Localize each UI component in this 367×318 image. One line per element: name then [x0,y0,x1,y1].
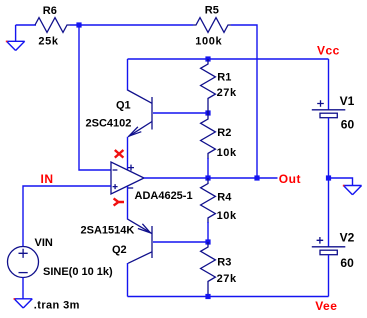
wire: Q2 base to divider [153,241,208,243]
resistor R1 [201,59,216,113]
svg-text:25k: 25k [38,36,58,48]
wire: Q1 base to divider [153,112,208,114]
svg-text:SINE(0 10 1k): SINE(0 10 1k) [43,266,113,278]
wire: gnd to R6 [16,24,36,26]
wire: VIN to ground [22,278,24,299]
battery V1 [312,100,346,118]
svg-text:Q1: Q1 [116,100,131,112]
wire: Q2 collector down to Vee rail [127,263,129,297]
node A junction (79,25) [76,22,81,27]
red dot artifact at VIN ground [14,298,16,300]
wire: Vee rail [128,296,329,298]
resistor R3 [201,242,216,297]
svg-text:V2: V2 [340,231,355,245]
marker X (inverting input) [115,150,124,158]
svg-text:R3: R3 [217,257,231,269]
svg-text:10k: 10k [217,147,237,159]
wire: V1 to mid node [328,118,330,178]
svg-text:Vcc: Vcc [317,44,340,58]
wire: Vcc rail down to V1 [328,59,330,110]
node: V1/V2/ground junction [326,175,331,180]
node: output/R5 junction [254,175,259,180]
svg-text:2SA1514K: 2SA1514K [81,225,135,237]
svg-text:IN: IN [41,172,54,186]
ground (below VIN) [14,299,32,308]
node: R4/R3/base junction [205,239,210,244]
node: R1/R2/base junction [205,110,210,115]
wire: op-amp V- down to Q2 emitter [127,186,129,219]
svg-text:.tran 3m: .tran 3m [34,300,80,312]
transistor Q2 (PNP 2SA1514K, mirrored) [128,219,153,263]
red dot artifact at top-left ground [6,41,8,43]
voltage source VIN [8,247,39,278]
wire: R2 bottom to output row [207,158,209,178]
wire: mid node to right ground [329,178,353,186]
resistor R4 [201,178,216,223]
svg-text:Q2: Q2 [112,244,127,256]
marker Y (non-inverting input) [114,198,124,205]
svg-text:V1: V1 [340,94,355,108]
ground (top-left, at R6) [7,25,25,51]
resistor R2 [201,113,216,159]
svg-text:R1: R1 [217,72,231,84]
svg-text:ADA4625-1: ADA4625-1 [135,190,193,202]
red dot artifact at right ground [343,185,345,187]
svg-text:27k: 27k [217,87,237,99]
svg-text:10k: 10k [217,210,237,222]
wire: node A down to op-amp inverting input [79,25,111,170]
battery V2 [312,237,346,255]
svg-text:60: 60 [340,256,354,270]
svg-text:Out: Out [279,172,301,186]
svg-text:Vee: Vee [315,299,337,313]
ground (right, between V1 and V2) [343,186,361,195]
svg-text:27k: 27k [217,273,237,285]
node: rail junction at R1 top [205,56,210,61]
resistor R5 [193,18,231,33]
svg-text:100k: 100k [195,35,222,47]
wire: rail down to Q1 collector [127,59,129,91]
svg-text:2SC4102: 2SC4102 [86,118,132,130]
node: output/R2/R4 junction [205,175,210,180]
resistor R6 [35,18,70,33]
wire: mid node to V2 [328,178,330,247]
wire: Q1 emitter down to op-amp V+ [127,137,129,170]
svg-text:R4: R4 [217,192,232,204]
node: Vee rail / R3 junction [205,294,210,299]
wire: R5 to feedback column [231,25,257,178]
transistor Q1 (NPN 2SC4102, mirrored) [128,90,153,137]
wire: Vcc rail [128,58,329,60]
op-amp U1 ADA4625-1 [111,162,144,194]
wire: R6 to node A [70,24,193,26]
svg-text:R6: R6 [43,5,57,17]
svg-text:VIN: VIN [35,237,53,249]
wire: IN to op-amp non-inverting input [23,186,111,247]
wire: op-amp output row [144,177,278,179]
wire: R4 bottom to Q2 base row [207,222,209,242]
wire: V2 to Vee rail [328,255,330,297]
svg-text:R2: R2 [217,127,231,139]
svg-text:60: 60 [341,117,355,131]
svg-text:R5: R5 [205,5,219,17]
